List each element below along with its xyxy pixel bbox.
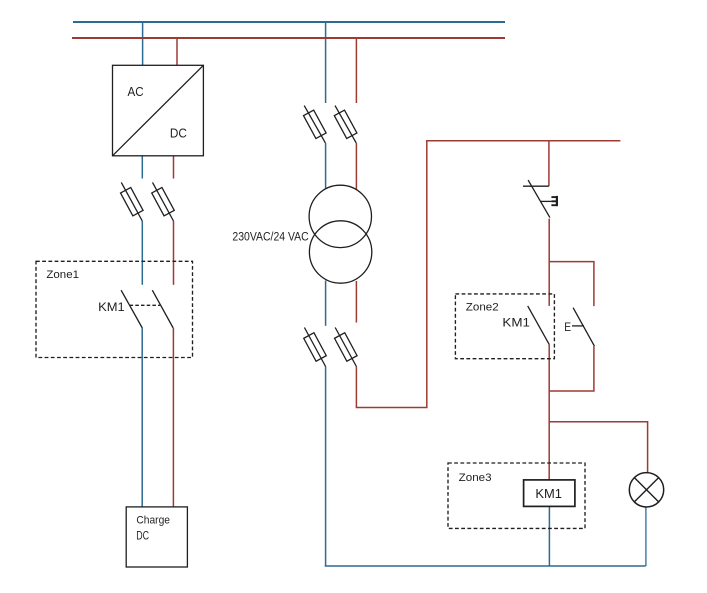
svg-text:230VAC/24 VAC: 230VAC/24 VAC bbox=[232, 230, 308, 244]
svg-text:Zone3: Zone3 bbox=[459, 472, 492, 484]
svg-text:KM1: KM1 bbox=[98, 300, 125, 314]
svg-text:KM1: KM1 bbox=[535, 486, 562, 501]
svg-text:KM1: KM1 bbox=[502, 316, 530, 330]
svg-text:AC: AC bbox=[128, 84, 144, 99]
svg-text:E: E bbox=[564, 320, 571, 334]
svg-text:Charge: Charge bbox=[136, 514, 170, 526]
svg-text:Zone1: Zone1 bbox=[46, 269, 79, 281]
svg-text:Zone2: Zone2 bbox=[466, 302, 499, 314]
svg-text:DC: DC bbox=[170, 126, 187, 141]
svg-text:DC: DC bbox=[136, 530, 149, 543]
